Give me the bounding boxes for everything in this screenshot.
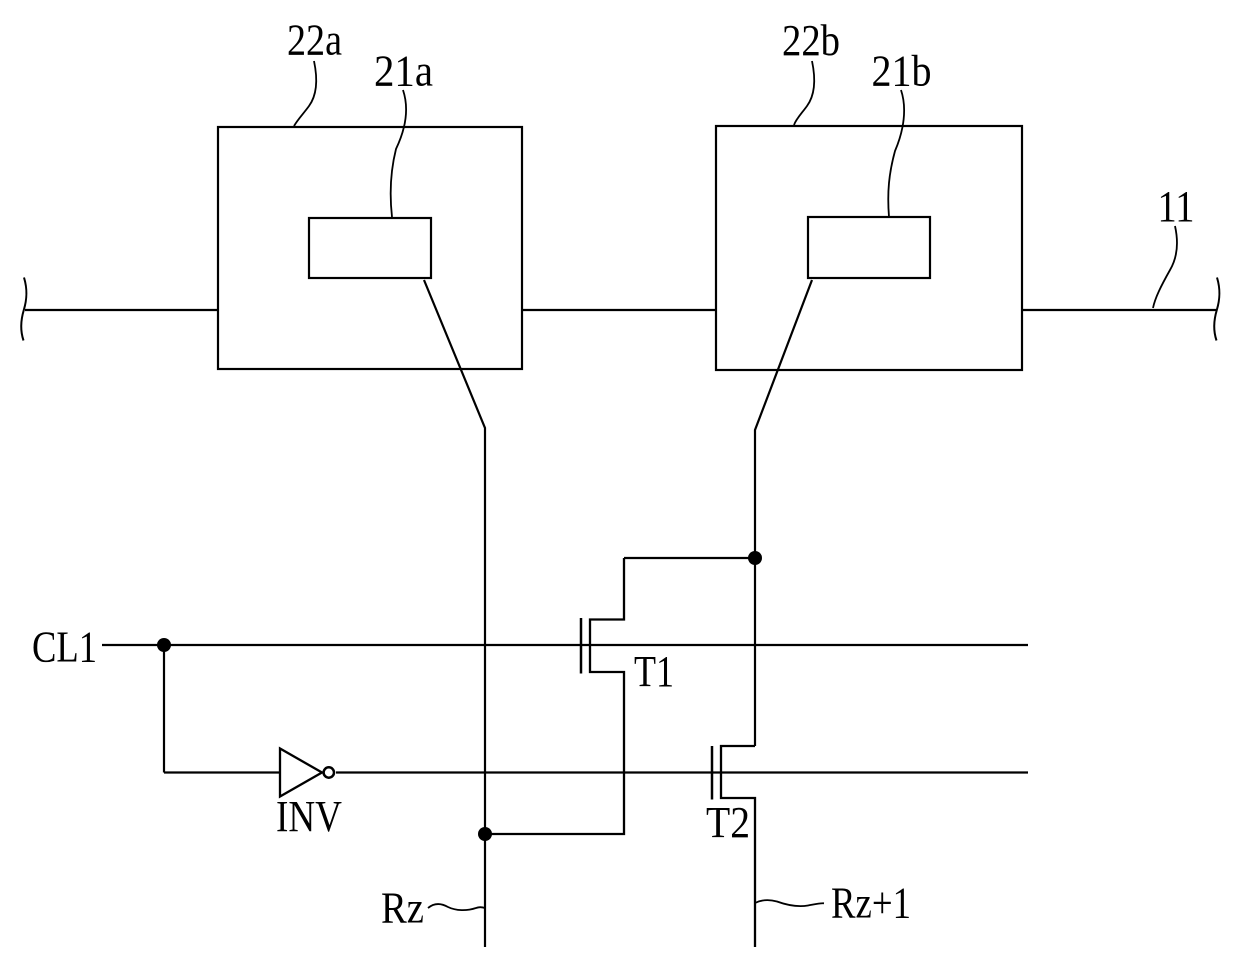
wire row-line 11 left segment [25,309,218,311]
leader curve for label 22b [794,61,814,125]
op-amp INV triangle [280,749,322,797]
element 21b inner rectangle [808,217,930,278]
wire row-line 11 middle segment between blocks [522,309,716,311]
transistor T1 drain-source path [485,558,624,834]
break mark left end of line 11 [21,278,26,341]
leader curve for label 21a [391,90,406,217]
svg-text:11: 11 [1158,182,1195,231]
leader curve for label 11 [1153,226,1177,308]
svg-text:Rz+1: Rz+1 [831,879,911,928]
wire from T1 drain to node on column Rz+1 [624,557,755,559]
INV output bubble [324,767,334,777]
leader curve for label 21b [888,90,904,217]
svg-text:CL1: CL1 [32,623,97,672]
svg-text:21b: 21b [872,47,932,96]
svg-text:Rz: Rz [381,884,424,933]
transistor T1 gate plate [580,618,583,674]
svg-text:INV: INV [276,792,342,841]
leader curve for label 22a [294,61,316,126]
transistor T2 drain-source path [721,746,755,947]
svg-text:21a: 21a [374,47,433,96]
wire diagonal from 21b down to column Rz+1 [755,280,812,746]
wire row-line 11 right segment [1022,309,1216,311]
wire inverter output row [336,771,1028,773]
svg-text:T2: T2 [706,798,750,847]
wire inverter input segment [164,771,280,773]
wire CL1 horizontal row [102,644,1028,646]
block 22a outer rectangle [218,127,522,369]
break mark right end of line 11 [1214,278,1219,341]
wire diagonal from 21a down to column Rz [424,280,485,947]
element 21a inner rectangle [309,218,431,278]
svg-text:22a: 22a [287,16,342,65]
junction node on CL1 at inverter branch [157,638,171,652]
leader squiggle for label Rz [428,904,485,910]
block 22b outer rectangle [716,126,1022,370]
junction node on column Rz+1 at T1 drain [748,551,762,565]
svg-text:22b: 22b [782,16,840,65]
transistor T2 gate plate [711,746,714,800]
wire vertical drop from CL1 to inverter input [163,645,165,773]
junction node on column Rz at T1 source [478,827,492,841]
leader squiggle for label Rz+1 [755,900,824,906]
svg-text:T1: T1 [634,647,674,696]
